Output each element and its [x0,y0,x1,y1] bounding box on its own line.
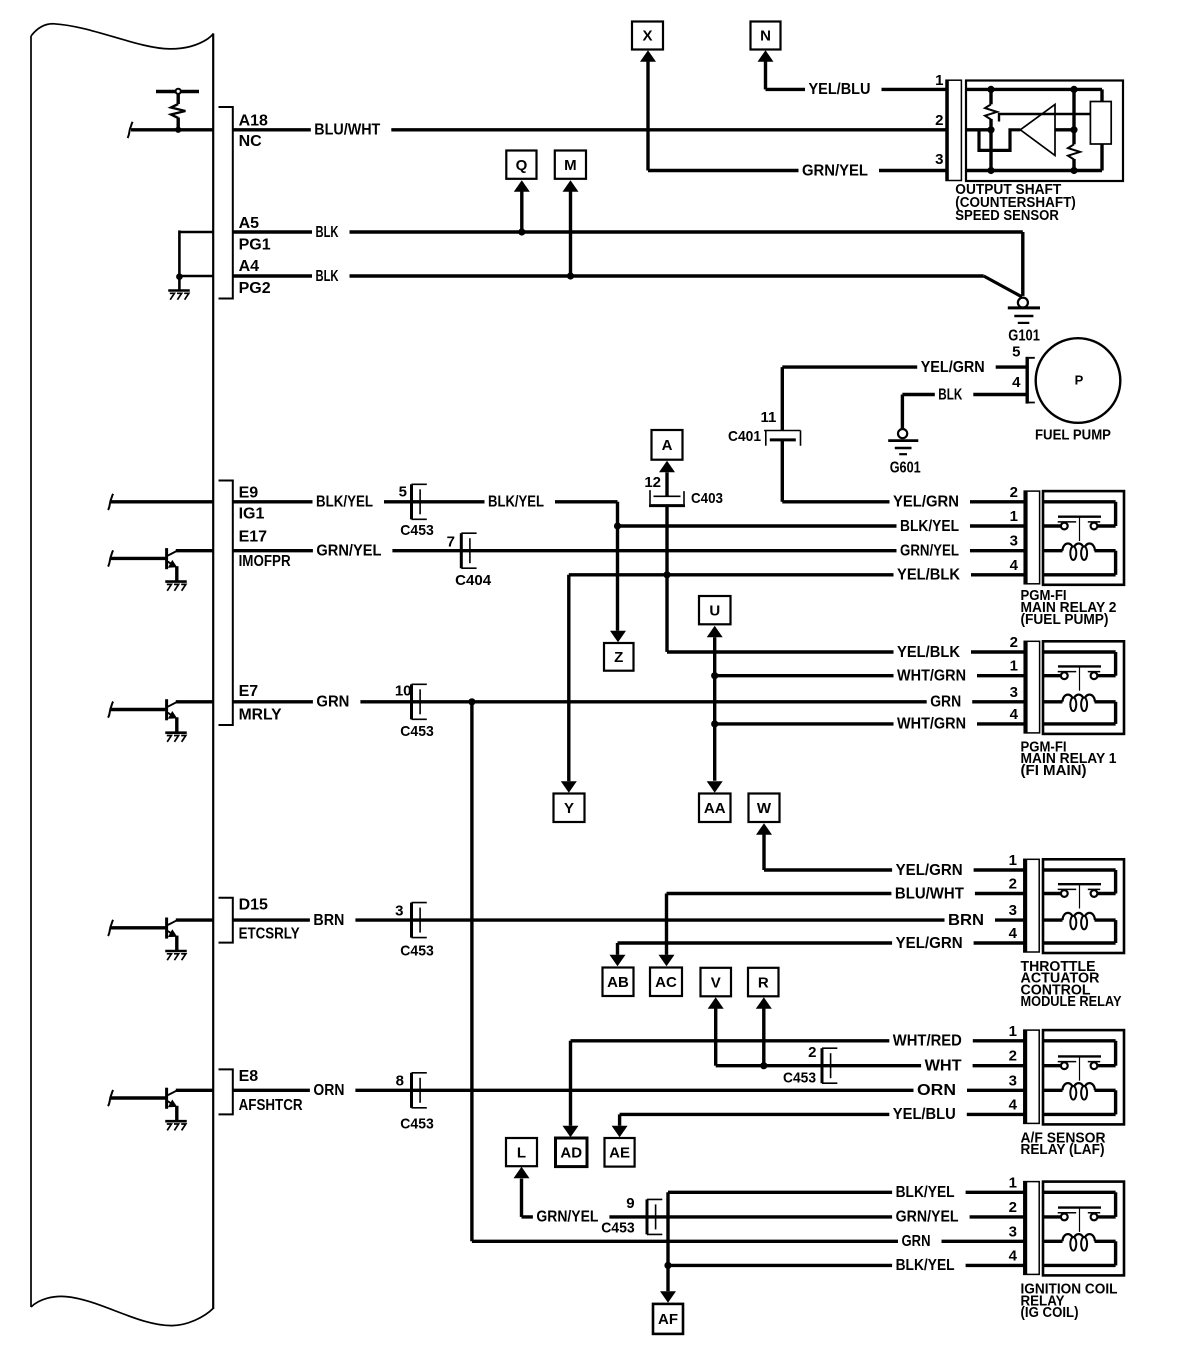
svg-text:3: 3 [1010,533,1018,550]
svg-text:GRN/YEL: GRN/YEL [900,543,959,560]
svg-text:YEL/BLK: YEL/BLK [897,644,960,661]
svg-text:GRN: GRN [902,1233,931,1250]
svg-text:BLK: BLK [316,224,339,241]
svg-text:4: 4 [1009,925,1018,942]
svg-text:10: 10 [395,683,412,700]
svg-text:BLK/YEL: BLK/YEL [896,1184,955,1201]
svg-text:GRN/YEL: GRN/YEL [896,1209,959,1226]
svg-text:C453: C453 [400,1116,434,1133]
svg-text:W: W [757,800,772,817]
svg-text:BLK: BLK [316,268,339,285]
svg-text:A18: A18 [239,112,268,129]
svg-text:A5: A5 [239,215,260,232]
svg-text:BLK/YEL: BLK/YEL [896,1257,955,1274]
svg-text:3: 3 [1009,902,1017,919]
svg-text:A4: A4 [239,258,260,275]
svg-text:AA: AA [704,800,726,817]
svg-text:NC: NC [239,133,263,150]
svg-text:C404: C404 [455,572,492,589]
svg-text:D15: D15 [239,897,268,914]
svg-text:9: 9 [626,1195,634,1212]
svg-text:2: 2 [1010,634,1018,651]
svg-text:4: 4 [1010,706,1019,723]
svg-text:WHT/GRN: WHT/GRN [897,668,966,685]
svg-text:G101: G101 [1008,328,1040,345]
svg-text:WHT/GRN: WHT/GRN [897,716,966,733]
svg-text:FUEL PUMP: FUEL PUMP [1035,427,1111,443]
svg-text:Z: Z [614,649,623,666]
svg-text:BLK: BLK [938,386,962,403]
svg-text:IMOFPR: IMOFPR [239,553,291,570]
svg-text:3: 3 [935,151,943,168]
svg-text:2: 2 [808,1044,816,1061]
svg-text:2: 2 [935,112,943,129]
svg-text:BLK/YEL: BLK/YEL [488,494,544,511]
svg-text:GRN/YEL: GRN/YEL [536,1209,598,1226]
svg-text:AF: AF [658,1311,678,1328]
svg-text:V: V [711,974,721,991]
svg-text:GRN/YEL: GRN/YEL [316,543,381,560]
svg-text:WHT/RED: WHT/RED [893,1033,962,1050]
svg-text:2: 2 [1009,1048,1017,1065]
svg-text:C453: C453 [783,1070,816,1087]
svg-text:E9: E9 [239,485,259,502]
svg-text:4: 4 [1009,1247,1018,1264]
svg-text:PG1: PG1 [239,237,271,254]
svg-text:YEL/GRN: YEL/GRN [893,494,959,511]
svg-text:ETCSRLY: ETCSRLY [239,926,300,943]
svg-text:E8: E8 [239,1068,259,1085]
svg-text:GRN: GRN [930,694,961,711]
svg-text:1: 1 [1010,658,1018,675]
svg-text:C453: C453 [400,943,434,960]
svg-text:BLK/YEL: BLK/YEL [316,494,373,511]
svg-text:M: M [564,157,577,174]
svg-text:GRN/YEL: GRN/YEL [802,162,868,179]
svg-text:1: 1 [1010,508,1018,525]
svg-text:AB: AB [607,974,629,991]
svg-text:YEL/GRN: YEL/GRN [921,359,985,376]
svg-text:2: 2 [1009,876,1017,893]
svg-text:PG2: PG2 [239,280,271,297]
svg-text:11: 11 [761,409,777,426]
svg-text:C453: C453 [601,1220,635,1237]
svg-text:7: 7 [447,533,455,550]
svg-text:IG1: IG1 [239,506,265,523]
svg-text:2: 2 [1010,484,1018,501]
svg-text:Q: Q [516,157,528,174]
svg-text:R: R [758,974,769,991]
svg-text:1: 1 [1009,852,1017,869]
svg-text:4: 4 [1010,557,1019,574]
svg-text:YEL/BLU: YEL/BLU [893,1106,956,1123]
svg-text:5: 5 [399,484,407,501]
svg-text:SPEED SENSOR: SPEED SENSOR [955,208,1059,224]
svg-text:3: 3 [395,903,403,920]
svg-text:X: X [642,28,652,45]
svg-text:3: 3 [1009,1223,1017,1240]
svg-text:YEL/BLK: YEL/BLK [897,567,960,584]
svg-text:C403: C403 [691,490,723,507]
svg-text:8: 8 [396,1073,404,1090]
svg-text:BLU/WHT: BLU/WHT [314,122,380,139]
svg-text:E17: E17 [239,529,268,546]
svg-text:5: 5 [1012,344,1020,361]
svg-text:ORN: ORN [313,1082,344,1099]
svg-text:BRN: BRN [948,912,984,929]
svg-text:4: 4 [1012,374,1021,391]
svg-text:MODULE RELAY: MODULE RELAY [1021,994,1122,1010]
svg-text:(FI MAIN): (FI MAIN) [1021,763,1087,779]
svg-text:AC: AC [655,974,677,991]
svg-text:GRN: GRN [316,694,349,711]
svg-text:N: N [760,28,771,45]
svg-text:WHT: WHT [925,1058,962,1075]
svg-text:4: 4 [1009,1096,1018,1113]
svg-text:E7: E7 [239,683,259,700]
svg-text:3: 3 [1010,684,1018,701]
svg-text:YEL/BLU: YEL/BLU [809,81,871,98]
svg-text:3: 3 [1009,1072,1017,1089]
svg-text:C453: C453 [400,522,434,539]
svg-text:BRN: BRN [313,912,344,929]
svg-text:C401: C401 [728,428,761,445]
svg-text:ORN: ORN [917,1082,956,1099]
svg-text:1: 1 [935,72,943,89]
svg-text:A: A [662,437,673,454]
svg-text:C453: C453 [400,723,434,740]
svg-text:(IG COIL): (IG COIL) [1021,1305,1079,1321]
svg-text:AD: AD [560,1145,582,1162]
svg-text:AFSHTCR: AFSHTCR [239,1097,303,1114]
svg-text:1: 1 [1009,1023,1017,1040]
svg-text:AE: AE [609,1145,630,1162]
svg-text:P: P [1075,373,1084,388]
svg-text:12: 12 [644,474,661,491]
svg-text:RELAY (LAF): RELAY (LAF) [1021,1142,1105,1158]
svg-text:MRLY: MRLY [239,707,282,724]
svg-text:1: 1 [1009,1174,1017,1191]
svg-text:BLU/WHT: BLU/WHT [895,885,964,902]
svg-text:YEL/GRN: YEL/GRN [896,935,963,952]
svg-text:YEL/GRN: YEL/GRN [896,862,963,879]
svg-text:(FUEL PUMP): (FUEL PUMP) [1021,612,1109,628]
svg-text:2: 2 [1009,1199,1017,1216]
svg-text:L: L [517,1144,526,1161]
svg-text:Y: Y [564,800,574,817]
svg-text:G601: G601 [890,459,921,476]
svg-text:BLK/YEL: BLK/YEL [900,518,959,535]
svg-text:U: U [709,602,720,619]
